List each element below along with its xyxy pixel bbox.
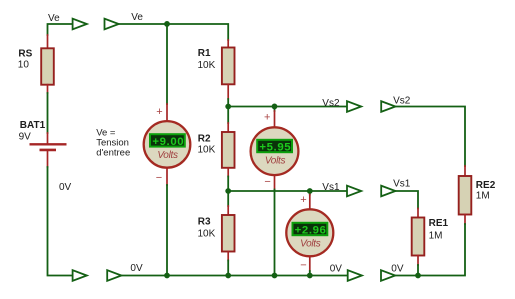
svg-text:+: + bbox=[300, 194, 306, 206]
svg-text:d'entree: d'entree bbox=[96, 148, 130, 159]
terminal Vs2 (middle output arrow) bbox=[347, 101, 361, 112]
wire RE2 to 0V rail bbox=[395, 224, 466, 276]
wire Vs2 line bbox=[228, 106, 346, 108]
svg-text:RS: RS bbox=[18, 49, 32, 60]
svg-text:Volts: Volts bbox=[300, 238, 321, 249]
resistor R1 bbox=[222, 40, 235, 99]
svg-text:+: + bbox=[156, 106, 162, 118]
svg-text:1M: 1M bbox=[429, 231, 443, 242]
wire Ve from RS to terminal bbox=[48, 24, 73, 35]
wire VM3 minus to 0V rail bbox=[309, 271, 311, 276]
svg-text:0V: 0V bbox=[391, 263, 404, 274]
svg-text:−: − bbox=[264, 176, 270, 188]
wire R1 to Vs2 node bbox=[227, 99, 229, 107]
node junction Vs2 / voltmeter VM2 bbox=[272, 104, 278, 110]
wire Vs1 to RE1 bbox=[395, 191, 418, 209]
node junction 0V / RE1 bbox=[415, 273, 421, 279]
svg-text:1M: 1M bbox=[476, 190, 490, 201]
svg-text:10K: 10K bbox=[198, 228, 216, 239]
wire VM1 plus drop bbox=[166, 24, 168, 104]
wire RS to BAT1 bbox=[47, 93, 49, 133]
terminal 0V (right input arrow) bbox=[381, 270, 395, 281]
svg-text:BAT1: BAT1 bbox=[20, 120, 46, 131]
svg-text:Ve: Ve bbox=[131, 12, 143, 23]
node junction 0V / VM2 bbox=[272, 273, 278, 279]
svg-text:10: 10 bbox=[18, 59, 30, 70]
svg-text:Vs2: Vs2 bbox=[322, 98, 340, 109]
svg-text:+9.00: +9.00 bbox=[152, 136, 184, 148]
battery BAT1 bbox=[30, 133, 67, 167]
terminal Vs1 (middle output arrow) bbox=[347, 186, 361, 197]
svg-text:0V: 0V bbox=[330, 263, 343, 274]
resistor RE1 bbox=[412, 209, 425, 266]
resistor RE2 bbox=[459, 166, 472, 224]
svg-text:−: − bbox=[300, 259, 306, 271]
node junction 0V / VM3 bbox=[307, 273, 313, 279]
wire Vs2 to RE2 bbox=[395, 107, 465, 167]
wire VM2 minus crossing Vs1 to 0V rail bbox=[274, 190, 276, 276]
svg-text:0V: 0V bbox=[130, 263, 143, 274]
terminal Vs1 (right input arrow) bbox=[381, 186, 395, 197]
wire VM1 minus to 0V rail bbox=[166, 185, 168, 276]
voltmeter VM2 bbox=[251, 107, 299, 190]
terminal Ve (middle input arrow) bbox=[105, 19, 119, 30]
svg-text:+5.95: +5.95 bbox=[259, 142, 291, 154]
wire Vs1 line bbox=[228, 190, 346, 192]
wire top rail Ve bbox=[118, 24, 228, 40]
node junction Vs2 at R1/R2 bbox=[225, 104, 231, 110]
terminal Vs2 (right input arrow) bbox=[381, 101, 395, 112]
svg-text:Vs1: Vs1 bbox=[393, 179, 411, 190]
svg-text:R3: R3 bbox=[198, 217, 211, 228]
svg-text:+: + bbox=[264, 111, 270, 123]
terminal 0V (middle input arrow) bbox=[107, 270, 121, 281]
terminal 0V (middle output arrow) bbox=[348, 270, 362, 281]
svg-text:R1: R1 bbox=[198, 48, 211, 59]
resistor R2 bbox=[222, 107, 235, 192]
svg-text:9V: 9V bbox=[19, 131, 32, 142]
resistor RS bbox=[41, 35, 54, 93]
svg-text:Vs1: Vs1 bbox=[322, 182, 340, 193]
svg-text:+2.96: +2.96 bbox=[295, 225, 327, 237]
svg-text:10K: 10K bbox=[198, 60, 216, 71]
svg-text:10K: 10K bbox=[198, 145, 216, 156]
svg-text:Volts: Volts bbox=[157, 150, 178, 161]
terminal 0V (left output arrow) bbox=[73, 270, 87, 281]
svg-text:0V: 0V bbox=[59, 182, 72, 193]
svg-text:−: − bbox=[156, 172, 162, 184]
svg-text:R2: R2 bbox=[198, 134, 211, 145]
svg-text:RE1: RE1 bbox=[429, 218, 449, 229]
node junction Vs1 / voltmeter VM3 bbox=[307, 188, 313, 194]
svg-text:Volts: Volts bbox=[265, 155, 286, 166]
svg-text:RE2: RE2 bbox=[476, 180, 496, 191]
svg-text:Ve: Ve bbox=[48, 13, 60, 24]
annotation Ve = Tension d'entree bbox=[96, 127, 130, 158]
voltmeter VM3 bbox=[286, 191, 333, 271]
node junction 0V / R3 bbox=[225, 273, 231, 279]
wire battery to 0V terminal bbox=[48, 167, 73, 276]
node junction 0V / VM1 bbox=[164, 273, 170, 279]
node junction Vs1 at R2/R3 bbox=[225, 188, 231, 194]
wire RE1 to 0V rail bbox=[417, 265, 419, 276]
voltmeter VM1 bbox=[144, 104, 191, 185]
terminal Ve (left output arrow) bbox=[73, 19, 87, 30]
svg-text:Vs2: Vs2 bbox=[393, 95, 411, 106]
wire bottom 0V rail bbox=[121, 275, 348, 277]
node junction top rail / voltmeter VM1 bbox=[164, 21, 170, 27]
resistor R3 bbox=[222, 191, 235, 276]
